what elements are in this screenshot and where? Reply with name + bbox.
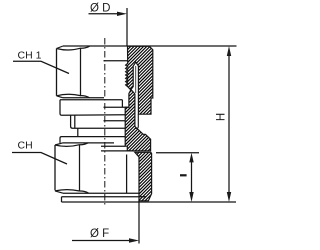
svg-text:CH 1: CH 1 [18,50,42,62]
svg-text:Ø D: Ø D [90,3,110,15]
svg-text:H: H [216,113,228,121]
svg-text:Ø F: Ø F [90,228,109,240]
svg-text:CH: CH [18,140,33,152]
